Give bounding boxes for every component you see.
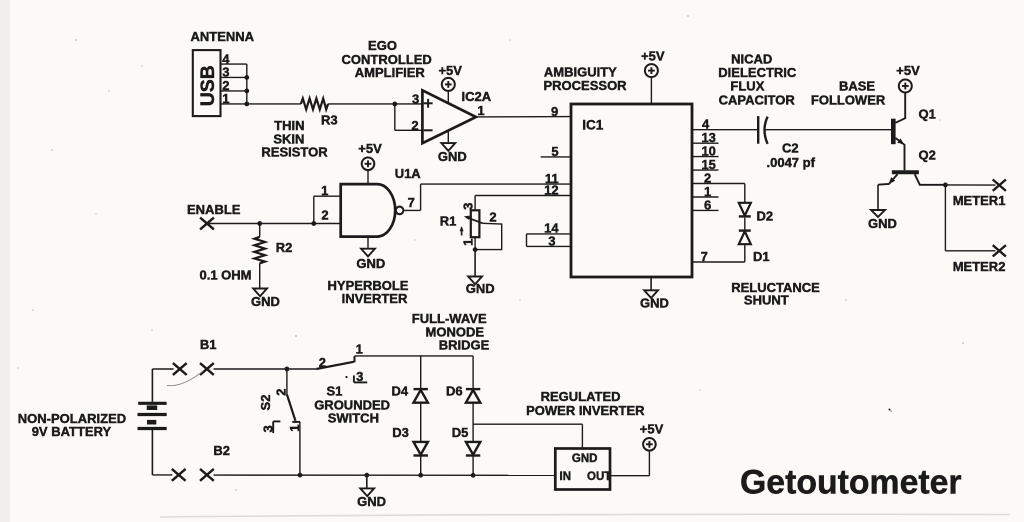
svg-text:+5V: +5V: [438, 63, 462, 78]
svg-text:GND: GND: [438, 149, 467, 164]
svg-text:2: 2: [489, 210, 496, 225]
svg-text:R1: R1: [440, 214, 457, 229]
svg-text:S2: S2: [258, 395, 273, 411]
svg-text:D2: D2: [757, 209, 774, 224]
svg-text:GND: GND: [251, 294, 280, 309]
svg-text:2: 2: [321, 208, 328, 223]
svg-text:0.1 OHM: 0.1 OHM: [200, 268, 252, 283]
svg-text:GND: GND: [357, 494, 386, 509]
svg-text:7: 7: [408, 195, 415, 210]
svg-text:6: 6: [704, 197, 711, 212]
svg-text:1: 1: [356, 342, 363, 357]
svg-text:METER1: METER1: [953, 193, 1006, 208]
svg-text:C2: C2: [782, 141, 799, 156]
svg-text:D1: D1: [753, 249, 770, 264]
svg-text:USB: USB: [197, 65, 219, 106]
svg-text:+5V: +5V: [641, 48, 665, 63]
svg-text:BRIDGE: BRIDGE: [439, 338, 490, 353]
svg-text:9: 9: [551, 104, 558, 119]
svg-text:INVERTER: INVERTER: [342, 291, 408, 306]
svg-text:B2: B2: [213, 443, 230, 458]
svg-text:SHUNT: SHUNT: [744, 292, 789, 307]
svg-text:1: 1: [461, 239, 476, 246]
svg-text:POWER INVERTER: POWER INVERTER: [526, 403, 645, 418]
svg-text:D4: D4: [392, 383, 409, 398]
svg-text:2: 2: [319, 355, 326, 370]
svg-text:3: 3: [460, 203, 475, 210]
svg-text:Q2: Q2: [919, 148, 936, 163]
svg-text:3: 3: [356, 369, 363, 384]
svg-text:AMPLIFIER: AMPLIFIER: [355, 65, 426, 80]
svg-text:2: 2: [411, 118, 418, 133]
svg-text:GND: GND: [640, 295, 669, 310]
svg-text:9V BATTERY: 9V BATTERY: [32, 424, 112, 439]
svg-text:GND: GND: [466, 281, 495, 296]
svg-text:3: 3: [412, 91, 419, 106]
svg-text:GND: GND: [572, 453, 598, 465]
svg-text:Q1: Q1: [919, 107, 936, 122]
svg-text:+5V: +5V: [358, 141, 382, 156]
svg-text:D3: D3: [392, 425, 409, 440]
svg-text:ENABLE: ENABLE: [187, 202, 241, 217]
svg-text:PROCESSOR: PROCESSOR: [544, 78, 628, 93]
svg-text:R2: R2: [276, 240, 293, 255]
svg-text:+5V: +5V: [896, 63, 920, 78]
svg-text:IC2A: IC2A: [462, 89, 492, 104]
svg-text:2: 2: [273, 388, 288, 395]
svg-text:GND: GND: [868, 216, 897, 231]
svg-text:D6: D6: [446, 383, 463, 398]
svg-text:METER2: METER2: [953, 259, 1006, 274]
svg-text:B1: B1: [200, 337, 217, 352]
svg-text:D5: D5: [452, 425, 469, 440]
svg-text:FOLLOWER: FOLLOWER: [811, 93, 886, 108]
svg-text:IC1: IC1: [582, 118, 604, 133]
svg-text:S1: S1: [327, 383, 343, 398]
svg-text:R3: R3: [321, 113, 338, 128]
svg-text:1: 1: [222, 91, 229, 106]
svg-text:ANTENNA: ANTENNA: [191, 29, 255, 44]
svg-text:3: 3: [260, 425, 275, 432]
svg-text:+5V: +5V: [640, 421, 664, 436]
svg-text:FLUX: FLUX: [730, 79, 764, 94]
svg-text:U1A: U1A: [395, 166, 422, 181]
svg-text:CAPACITOR: CAPACITOR: [719, 93, 796, 108]
svg-text:1: 1: [287, 424, 302, 431]
svg-text:Getoutometer: Getoutometer: [740, 464, 962, 502]
svg-text:1: 1: [321, 183, 328, 198]
svg-text:.0047 pf: .0047 pf: [767, 155, 816, 170]
svg-text:BASE: BASE: [839, 79, 875, 94]
svg-text:1: 1: [477, 103, 484, 118]
svg-text:RESISTOR: RESISTOR: [261, 145, 328, 160]
svg-text:SWITCH: SWITCH: [328, 410, 379, 425]
svg-text:IN: IN: [560, 471, 572, 483]
svg-text:OUT: OUT: [587, 471, 611, 483]
svg-text:GND: GND: [356, 256, 385, 271]
